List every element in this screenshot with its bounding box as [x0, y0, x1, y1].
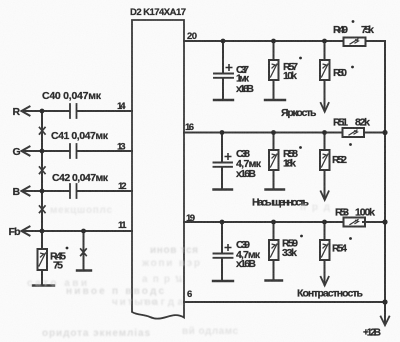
- svg-text:x16В: x16В: [236, 168, 256, 180]
- svg-text:C42 0,047мк: C42 0,047мк: [52, 172, 109, 184]
- svg-text:D2 K174XA17: D2 K174XA17: [130, 7, 186, 18]
- svg-text:оридота экнемлias: оридота экнемлias: [42, 328, 150, 339]
- svg-text:Fb: Fb: [9, 226, 21, 238]
- svg-text:18k: 18k: [283, 158, 296, 170]
- svg-text:10k: 10k: [283, 70, 297, 82]
- svg-text:B: B: [13, 186, 21, 198]
- svg-text:R54: R54: [332, 243, 347, 255]
- svg-text:R53: R53: [335, 207, 349, 219]
- svg-text:мекцшоплс: мекцшоплс: [50, 205, 112, 216]
- svg-text:C41 0,047мк: C41 0,047мк: [51, 130, 109, 142]
- svg-text:G: G: [13, 146, 21, 158]
- svg-text:12: 12: [118, 181, 127, 192]
- svg-text:x16В: x16В: [236, 83, 254, 95]
- svg-text:19: 19: [186, 213, 195, 224]
- svg-text:x16В: x16В: [236, 258, 256, 270]
- svg-text:100k: 100k: [355, 207, 375, 219]
- svg-text:жопи вэр: жопи вэр: [141, 258, 200, 269]
- svg-text:прд: прд: [300, 202, 331, 213]
- svg-text:R: R: [13, 106, 21, 118]
- svg-text:20: 20: [187, 31, 197, 42]
- svg-text:75: 75: [53, 260, 63, 272]
- svg-text:R51: R51: [333, 117, 348, 129]
- svg-text:инов тся: инов тся: [150, 245, 198, 256]
- svg-text:Контрастность: Контрастность: [297, 288, 364, 300]
- svg-text:R49: R49: [333, 24, 348, 36]
- svg-text:C40 0,047мк: C40 0,047мк: [42, 90, 102, 102]
- svg-text:вй одламс: вй одламс: [182, 326, 238, 337]
- svg-text:33k: 33k: [282, 247, 297, 259]
- svg-text:75k: 75k: [361, 24, 374, 36]
- svg-text:R50: R50: [333, 67, 347, 79]
- svg-text:6: 6: [187, 289, 192, 300]
- svg-text:82k: 82k: [355, 117, 370, 129]
- svg-text:+12В: +12В: [363, 328, 381, 339]
- svg-text:14: 14: [117, 101, 126, 112]
- svg-text:R52: R52: [332, 154, 347, 166]
- svg-text:Яркость: Яркость: [281, 107, 317, 119]
- svg-text:13: 13: [117, 142, 126, 153]
- svg-text:16: 16: [185, 122, 194, 133]
- svg-text:апрน: апрน: [142, 274, 182, 285]
- svg-text:11: 11: [118, 220, 127, 231]
